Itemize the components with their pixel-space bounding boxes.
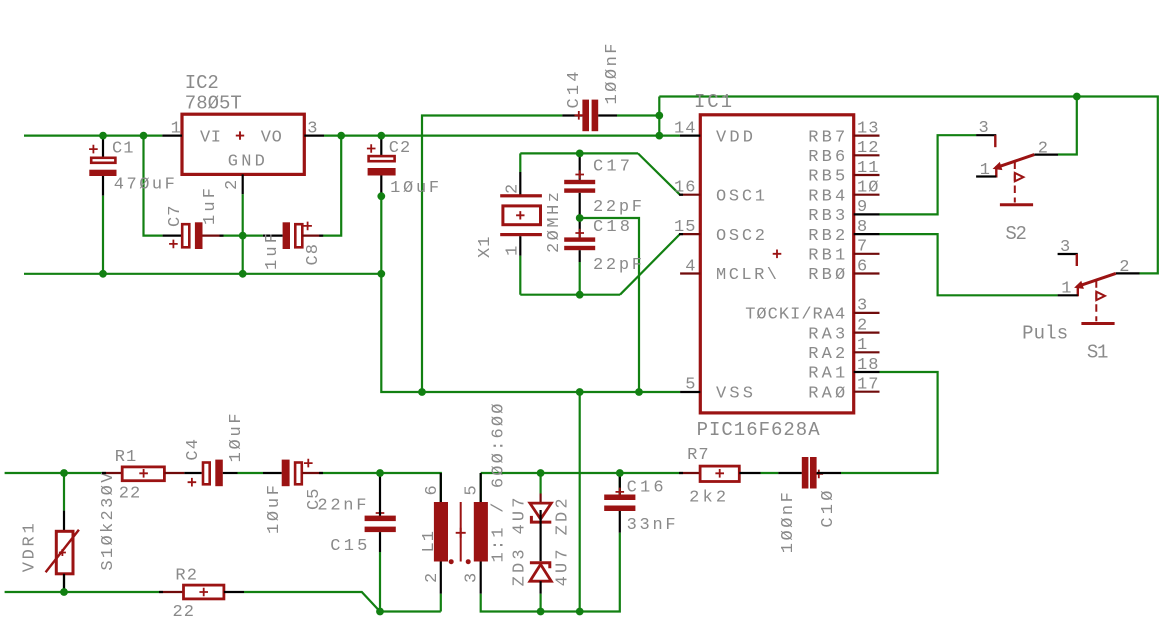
svg-text:S2: S2 [1005, 223, 1027, 245]
wire upper GND rail [24, 273, 381, 275]
capacitor C8 plus [303, 222, 312, 231]
wire VDR bottom [63, 574, 65, 592]
IC1 pin 11 stub [854, 174, 880, 176]
varistor VDR1 origin cross [59, 549, 66, 556]
capacitor C4 right pin [223, 472, 238, 474]
transformer L1 pin 3 stub [480, 562, 482, 594]
capacitor C10 plate 2 [810, 457, 817, 489]
svg-text:RA2: RA2 [808, 345, 845, 364]
resistor R1 body [122, 467, 164, 481]
wire C5 to L1 pin6 [322, 473, 441, 502]
svg-text:47ØuF: 47ØuF [114, 176, 175, 195]
switch S2 pin 1 contact [995, 168, 997, 178]
IC1 pin 4 stub [680, 272, 700, 274]
resistor R2 right pin [224, 591, 244, 593]
wire C14 right to junction [617, 114, 659, 116]
capacitor C17 top pin [579, 153, 581, 179]
svg-text:1uF: 1uF [201, 188, 220, 225]
wire C2 bottom to GND rails [381, 196, 680, 392]
resistor R7 origin cross [715, 469, 724, 478]
svg-text:L1: L1 [420, 531, 439, 553]
wire C14 branch left/top [422, 116, 562, 393]
svg-text:12: 12 [857, 139, 879, 158]
junction C15 top [376, 469, 384, 477]
svg-text:C4: C4 [184, 439, 203, 461]
capacitor C8 right pin tip [319, 235, 323, 237]
svg-text:4U7: 4U7 [554, 549, 573, 586]
resistor R2 origin cross [199, 588, 208, 597]
transformer L1 pin 2 stub [440, 562, 442, 594]
IC1 pin 15 stub [680, 233, 700, 235]
svg-text:18: 18 [857, 356, 879, 375]
capacitor C18 plate 2 [564, 246, 595, 250]
junction VDR1 bottom [60, 588, 68, 596]
voltage regulator IC2 body [182, 114, 304, 174]
wire switch supply rail [659, 97, 1158, 274]
wire C18 bottom to OSC2 node [579, 262, 581, 295]
svg-text:C1Ø: C1Ø [819, 491, 838, 528]
IC2 pin 1 stub [162, 135, 182, 137]
crystal X1 top plate [500, 194, 542, 197]
capacitor C7 left pin [163, 235, 181, 237]
capacitor C1 top pin [102, 136, 104, 157]
junction C7 branch [140, 132, 148, 140]
capacitor C16 plus [616, 488, 625, 497]
switch S1 pin 3 contact [1076, 254, 1078, 266]
svg-text:2: 2 [223, 180, 242, 190]
capacitor C7 right pin [203, 235, 223, 237]
transformer L1 secondary winding [474, 502, 488, 562]
svg-text:R2: R2 [175, 566, 197, 585]
svg-text:1ØØnF: 1ØØnF [779, 492, 798, 553]
svg-text:16: 16 [674, 179, 696, 198]
wire C4-C5 mid [238, 472, 264, 474]
wire left bottom rail [380, 610, 441, 612]
transformer L1 phase dot primary [449, 559, 454, 564]
IC1 pin 1 stub [854, 351, 880, 353]
switch S2 actuator stem [1014, 162, 1016, 203]
IC1 pin 13 stub [854, 135, 880, 137]
svg-text:8: 8 [857, 218, 867, 237]
wire crystal top pin [519, 153, 521, 172]
svg-text:5: 5 [463, 485, 482, 495]
junction ZD top [537, 469, 545, 477]
wire 7805 GND down [242, 194, 244, 274]
capacitor C4 negative plate [215, 460, 223, 487]
svg-text:S1: S1 [1087, 342, 1109, 364]
switch S1 pin 3 stub [1058, 253, 1078, 255]
switch S1 lever [1077, 273, 1116, 286]
switch S2 pin 2 stub [1034, 154, 1058, 156]
wire S2 supply branch [1058, 97, 1077, 155]
capacitor C18 plate 1 [564, 237, 595, 241]
IC2 origin cross [236, 131, 244, 139]
capacitor C8 left pin [263, 235, 283, 237]
svg-text:RA1: RA1 [808, 365, 845, 384]
svg-text:RB7: RB7 [808, 128, 845, 147]
svg-text:VO: VO [261, 128, 282, 147]
zener ZD3 cathode bar [530, 563, 550, 568]
IC1 pin 15 tip [679, 233, 683, 235]
svg-text:ZD3: ZD3 [510, 549, 529, 586]
microcontroller IC1 body [700, 115, 853, 413]
varistor VDR1 bottom pin [63, 574, 65, 590]
switch S2 pin 3 stub [976, 134, 996, 136]
svg-text:VI: VI [200, 128, 221, 147]
capacitor C8 negative plate [283, 222, 290, 249]
svg-text:9: 9 [857, 198, 867, 217]
junction C2 bottom [377, 192, 385, 200]
varistor VDR1 top pin [63, 511, 65, 532]
crystal X1 bottom pin [519, 236, 521, 256]
junction VDR1 top [60, 469, 68, 477]
svg-text:ZD2: ZD2 [554, 498, 573, 535]
svg-text:IC2: IC2 [185, 72, 219, 94]
svg-text:RBØ: RBØ [808, 266, 845, 285]
svg-text:15: 15 [674, 218, 696, 237]
svg-text:3: 3 [857, 297, 867, 316]
IC1 pin 17 stub [854, 391, 880, 393]
resistor R2 body [184, 585, 224, 599]
crystal X1 origin cross [516, 211, 524, 219]
svg-text:1: 1 [171, 120, 181, 139]
svg-text:2: 2 [1119, 258, 1129, 277]
switch S1 lever arrow [1074, 281, 1084, 289]
junction C1 bottom [99, 270, 107, 278]
capacitor C18 bottom pin [579, 250, 581, 262]
switch S2 pin 1 stub [976, 175, 996, 177]
capacitor C10 left pin [778, 472, 802, 474]
junction C7-C8 GND [239, 232, 247, 240]
svg-text:5: 5 [685, 376, 695, 395]
capacitor C5 plus [304, 459, 313, 468]
svg-text:IC1: IC1 [694, 91, 732, 113]
svg-text:3: 3 [463, 573, 482, 583]
wire R2 right + diagonal [244, 592, 380, 612]
capacitor C2 positive plate [369, 156, 395, 161]
wire GND drop to lower section [579, 392, 581, 612]
transformer L1 core [460, 502, 462, 562]
wire input +9V top rail [24, 135, 162, 137]
transformer L1 phase dot secondary [466, 559, 471, 564]
switch S1 actuator bar [1081, 322, 1114, 325]
svg-text:C8: C8 [304, 244, 323, 266]
capacitor C14 plus [575, 111, 584, 120]
wire secondary top [481, 472, 680, 474]
svg-text:2: 2 [1038, 139, 1048, 158]
switch S1 actuator stem [1095, 280, 1097, 321]
svg-text:PIC16F628A: PIC16F628A [697, 419, 821, 441]
capacitor C2 bottom pin [380, 176, 382, 197]
junction C1 top [99, 132, 107, 140]
IC2 pin 3 stub [304, 135, 324, 137]
svg-text:1: 1 [1061, 280, 1071, 299]
wire RA1 to C10 [841, 372, 938, 473]
capacitor C16 bottom pin [619, 511, 621, 533]
capacitor C1 bottom wire [102, 196, 104, 274]
junction GND rail at 7805 [239, 270, 247, 278]
wire OSC2 node [520, 294, 620, 296]
svg-text:4: 4 [685, 257, 695, 276]
capacitor C2 negative plate [368, 168, 396, 176]
svg-text:14: 14 [674, 119, 696, 138]
resistor R2 left pin [160, 591, 184, 593]
svg-text:1: 1 [980, 161, 990, 180]
svg-text:C15: C15 [330, 537, 367, 556]
svg-text:RB4: RB4 [808, 187, 845, 206]
capacitor C7 negative plate [195, 222, 203, 249]
wire mains neutral in [5, 591, 160, 593]
svg-text:C1: C1 [112, 139, 134, 158]
svg-text:R1: R1 [115, 448, 137, 467]
capacitor C8 positive plate [295, 224, 302, 247]
resistor R7 left pin [680, 472, 700, 474]
capacitor C15 plus [376, 509, 385, 518]
IC1 pin 6 stub [854, 272, 880, 274]
junction C2 top [377, 132, 385, 140]
capacitor C8 right pin [302, 235, 322, 237]
svg-text:R7: R7 [687, 446, 709, 465]
IC1 pin 8 stub [854, 233, 880, 235]
IC1 pin 16 tip [679, 194, 683, 196]
zener ZD2 cathode bar [531, 516, 551, 522]
resistor R1 origin cross [139, 469, 148, 478]
capacitor C18 top pin [579, 218, 581, 237]
switch S1 pin 1 stub [1058, 294, 1078, 296]
IC2 pin 2 GND stub [242, 174, 244, 194]
wire VDR top [63, 473, 65, 511]
wire junction column x659 [658, 97, 660, 136]
resistor R1 right pin [164, 472, 184, 474]
svg-text:2: 2 [857, 316, 867, 335]
junction ZD bottom [537, 608, 545, 616]
capacitor C5 right pin [302, 472, 322, 474]
IC1 pin 9 stub [854, 213, 880, 215]
capacitor C15 top pin [379, 473, 381, 516]
junction GND drop [576, 388, 584, 396]
svg-text:1: 1 [503, 246, 522, 256]
junction OSC2 node [576, 291, 584, 299]
resistor R7 right pin [739, 472, 760, 474]
capacitor C15 plate 1 [365, 516, 396, 522]
wire OSC1 node [520, 152, 638, 154]
wire OSC2 diagonal to pin 15 [620, 234, 680, 295]
svg-text:6: 6 [423, 485, 442, 495]
svg-text:C2: C2 [389, 139, 411, 158]
capacitor C7 plus [169, 240, 178, 249]
svg-text:22: 22 [119, 485, 141, 504]
capacitor C14 plate 1 [582, 100, 589, 132]
IC1 pin 14 stub [680, 135, 701, 137]
junction osc GND branch [635, 388, 643, 396]
switch S1 pin 2 stub [1116, 272, 1140, 274]
svg-text:17: 17 [857, 376, 879, 395]
svg-text:RB6: RB6 [808, 148, 845, 167]
IC1 origin cross [773, 250, 782, 259]
wire crystal bottom pin [519, 256, 521, 295]
svg-text:RB3: RB3 [808, 207, 845, 226]
junction 5V at IC [655, 132, 663, 140]
svg-text:78Ø5T: 78Ø5T [185, 93, 242, 115]
capacitor C1 positive plate [91, 158, 115, 163]
capacitor C16 plate 2 [604, 506, 635, 512]
switch S2 lever arrow [993, 162, 1003, 170]
svg-text:GND: GND [228, 153, 265, 172]
IC1 pin 2 stub [854, 332, 880, 334]
capacitor C14 right pin [598, 114, 617, 116]
svg-text:1ØØnF: 1ØØnF [603, 44, 622, 105]
varistor VDR1 diagonal [46, 530, 79, 573]
svg-text:VSS: VSS [716, 384, 753, 403]
capacitor C16 plate 1 [604, 495, 635, 501]
junction C17-C18 mid [576, 214, 584, 222]
svg-text:C7: C7 [166, 206, 185, 228]
wire OSC1 diagonal to pin 16 [638, 153, 680, 194]
capacitor C15 bottom pin [379, 532, 381, 552]
wire osc GND branch [580, 218, 639, 392]
IC1 pin 10 stub [854, 194, 880, 196]
transformer L1 pin 6 stub [440, 473, 442, 502]
svg-text:C16: C16 [627, 478, 664, 497]
capacitor C14 left pin [562, 114, 582, 116]
capacitor C5 right tip [319, 472, 323, 474]
wire L1 pin5 drop [480, 473, 482, 502]
capacitor C5 left pin [263, 472, 282, 474]
switch S1 pin 1 contact [1077, 286, 1079, 296]
transformer L1 primary winding [434, 502, 448, 562]
svg-text:1Ø: 1Ø [857, 179, 879, 198]
zener ZD2 triangle [530, 503, 551, 519]
capacitor C17 plus [575, 170, 584, 179]
resistor R7 left tip [679, 472, 683, 474]
svg-text:7: 7 [857, 238, 867, 257]
svg-text:13: 13 [857, 119, 879, 138]
resistor R1 left tip [102, 472, 106, 474]
resistor R7 body [700, 466, 739, 481]
capacitor C17 bottom pin [579, 193, 581, 218]
capacitor C2 plus [367, 144, 376, 153]
svg-text:Puls: Puls [1022, 323, 1068, 345]
svg-text:C18: C18 [593, 218, 630, 237]
capacitor C2 top pin [380, 136, 382, 156]
zener ZD2 to ZD3 link [539, 510, 541, 561]
switch S2 actuator triangle [1015, 173, 1024, 181]
junction C16 top [616, 469, 624, 477]
svg-text:1uF: 1uF [263, 233, 282, 270]
IC1 pin 18 stub [854, 371, 880, 373]
junction GND rail at C2 [377, 270, 385, 278]
wire RB3 to S2 pin3 [880, 135, 977, 214]
transformer L1 pin 5 stub [480, 473, 482, 502]
svg-text:4U7: 4U7 [510, 498, 529, 535]
capacitor C4 positive plate [203, 463, 210, 485]
svg-text:VDD: VDD [716, 128, 753, 147]
capacitor C1 negative plate [89, 170, 116, 176]
svg-text:2: 2 [503, 184, 522, 194]
svg-text:S1Øk23ØV: S1Øk23ØV [99, 472, 118, 571]
svg-text:2ØMHz: 2ØMHz [545, 192, 564, 253]
zener ZD3 triangle [530, 564, 551, 581]
svg-text:RA3: RA3 [808, 325, 845, 344]
svg-text:RB1: RB1 [808, 247, 845, 266]
capacitor C1 bottom pin [102, 176, 104, 196]
resistor R2 left tip [159, 591, 163, 593]
crystal X1 top pin [519, 172, 521, 195]
svg-text:2: 2 [423, 573, 442, 583]
wire C7 to C8 mid segment [222, 235, 263, 237]
capacitor C5 negative plate [282, 460, 290, 487]
svg-text:TØCKI/RA4: TØCKI/RA4 [745, 306, 845, 325]
svg-text:C14: C14 [565, 72, 584, 109]
wire right bottom rail [481, 533, 620, 612]
wire 5V rail from 7805 VO to IC1 pin 14 [324, 135, 680, 137]
wire branch down to C8 right [322, 136, 341, 236]
junction GND drop bottom [576, 608, 584, 616]
svg-text:2k2: 2k2 [689, 489, 726, 508]
IC1 pin 7 stub [854, 253, 880, 255]
wire C7 branch from input rail [144, 136, 163, 236]
zener ZD2 top pin [539, 494, 541, 504]
wire mains live in [5, 472, 103, 474]
junction C14 branch at GND rail [418, 388, 426, 396]
capacitor C16 top pin [619, 473, 621, 495]
svg-text:X1: X1 [476, 237, 495, 259]
capacitor C10 right pin [817, 472, 841, 474]
svg-text:1: 1 [857, 336, 867, 355]
switch S2 pin 3 contact [994, 135, 996, 147]
capacitor C7 positive plate [182, 224, 189, 247]
capacitor C17 plate 2 [564, 188, 595, 192]
wire C16 top [619, 473, 621, 495]
svg-text:RB5: RB5 [808, 168, 845, 187]
wire L1 pin2 up [440, 594, 442, 612]
svg-text:3: 3 [979, 119, 989, 138]
wire R7 to C10 mid [761, 472, 779, 474]
svg-text:MCLR\: MCLR\ [716, 266, 777, 285]
zener ZD3 bottom pin [539, 581, 541, 594]
IC1 pin 5 stub [680, 391, 700, 393]
IC1 pin 16 stub [680, 194, 700, 196]
IC1 pin 3 stub [854, 312, 880, 314]
svg-text:3: 3 [307, 120, 317, 139]
varistor VDR1 body [56, 531, 73, 574]
svg-text:RB2: RB2 [808, 227, 845, 246]
wire ZD top [539, 473, 541, 494]
switch S2 actuator bar [1000, 203, 1033, 206]
switch S1 actuator triangle [1096, 292, 1105, 300]
junction 7805 VO [337, 132, 345, 140]
capacitor C17 plate 1 [564, 180, 595, 184]
capacitor C5 positive plate [295, 463, 302, 485]
svg-text:6: 6 [857, 257, 867, 276]
svg-text:C17: C17 [593, 158, 630, 177]
svg-text:11: 11 [857, 159, 879, 178]
svg-text:3: 3 [1060, 238, 1070, 257]
junction OSC1 node [576, 150, 584, 158]
IC1 pin 12 stub [854, 154, 880, 156]
capacitor C18 plus [575, 229, 584, 238]
capacitor C1 plus [89, 145, 98, 154]
capacitor C10 plus [815, 470, 824, 479]
capacitor C15 plate 2 [365, 527, 396, 533]
crystal X1 bottom plate [500, 233, 542, 236]
capacitor C4 plus [188, 478, 197, 487]
capacitor C14 plate 2 [592, 100, 599, 132]
crystal X1 body [503, 206, 541, 225]
capacitor C4 left pin [184, 472, 201, 474]
junction C14 right [655, 112, 663, 120]
wire ZD bottom [539, 594, 541, 612]
